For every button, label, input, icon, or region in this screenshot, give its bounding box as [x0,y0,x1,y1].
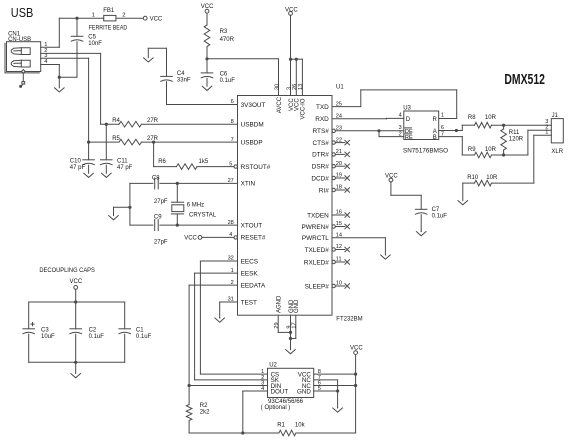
pin 27 XTIN label [228,178,256,188]
resistor R6 [154,142,234,169]
junction U2 pin6 rail [354,384,357,387]
svg-text:R11: R11 [509,130,520,136]
svg-text:1: 1 [545,130,548,136]
label R5 value 27R [147,136,159,142]
pin AVCC name [277,96,283,113]
svg-text:27: 27 [228,178,234,184]
pin D label U3 [399,113,411,123]
pin 1 EESK label [231,268,259,278]
svg-text:DMX512: DMX512 [504,71,545,88]
wire EESK net [195,273,268,380]
ground PWRCTL [381,238,391,260]
pin 2 SK label U2 [261,375,280,384]
svg-text:27pF: 27pF [154,199,168,205]
label R5 [112,136,120,142]
connector CN1 body [5,42,41,73]
vcc terminal VCC (decoupling) [70,279,83,289]
junction VCC rail b [295,58,298,61]
svg-text:3: 3 [399,125,402,131]
label SN75176BMSO [403,149,448,155]
label C8 [152,175,160,181]
label R3 [220,29,235,43]
ground R10 [458,183,468,205]
svg-text:4: 4 [399,113,402,119]
capacitor C2 0.1uF [70,302,82,362]
svg-text:CRYSTAL: CRYSTAL [189,212,217,218]
wire U2 pin7 to gnd [314,380,338,408]
ground U1 [286,350,296,354]
ground TEST [215,318,225,323]
label C9 value 27pF [154,239,168,245]
svg-text:C2: C2 [89,327,97,333]
svg-text:USB: USB [11,6,34,20]
wire U2 pin5 gnd stub [314,390,338,392]
junction XTIN crystal [176,182,179,185]
capacitor C1 0.1uF [119,302,131,362]
wire crystal left leg [129,183,131,225]
label R4 value 27R [147,118,159,124]
label C10 [70,158,86,170]
label C8 value 27pF [154,199,168,205]
svg-text:1: 1 [441,113,444,119]
vcc terminal VCC (RESET#) [184,236,202,242]
wire 3V3OUT [167,82,238,105]
label C5 value [88,35,102,47]
capacitor C4 [161,48,173,81]
junction GND [289,337,292,340]
resistor R11 120R [501,125,507,155]
svg-text:3V3OUT: 3V3OUT [241,102,266,109]
svg-text:29: 29 [274,322,280,328]
wire crystal gnd branch [114,206,130,208]
pin 4 RESET# label [229,232,266,242]
pin GND name a [289,299,295,313]
junction XTOUT crystal [176,224,179,227]
svg-text:CTS#: CTS# [312,140,329,147]
svg-text:GND: GND [297,388,311,395]
svg-text:2: 2 [399,131,402,137]
svg-text:DSR#: DSR# [312,164,329,171]
svg-text:0.1uF: 0.1uF [220,78,236,84]
junction U2 VCC pin8 [354,373,357,376]
svg-text:J1: J1 [552,113,559,119]
svg-text:C1: C1 [136,327,144,333]
pin 2 EEDATA label [231,280,266,290]
pin 24 RXD label [315,114,342,124]
svg-text:47 pF: 47 pF [70,165,86,171]
junction A wire [455,129,458,132]
junction VCC rail a [289,58,292,61]
svg-text:SLEEP#: SLEEP# [305,283,330,290]
svg-text:0.1uF: 0.1uF [136,334,152,340]
svg-text:R8: R8 [468,115,476,121]
pin 17 number [292,322,298,328]
pin 31 TEST label [228,297,257,307]
svg-text:R4: R4 [112,118,120,124]
junction U2 gnd [336,389,339,392]
pin 18 RI# no-connect [319,185,350,195]
resistor R2 2k2 [186,386,192,434]
junction AGND [289,331,292,334]
svg-text:( Optional ): ( Optional ) [261,405,291,411]
wire decoupling top rail [29,289,125,302]
svg-text:R10: R10 [467,175,479,181]
junction DOUT bottom [241,431,244,434]
label U1 [336,84,344,90]
svg-text:R9: R9 [468,147,476,153]
svg-text:VCC: VCC [295,98,301,111]
ground C6 [202,86,212,91]
svg-text:C7: C7 [432,207,440,213]
svg-text:13: 13 [298,84,304,90]
wire U2 pin6 stub [314,385,356,387]
pin 1 CS label U2 [261,369,279,378]
svg-text:RI#: RI# [319,187,329,194]
capacitor C6 [201,59,213,86]
svg-text:RSTOUT#: RSTOUT# [241,164,271,171]
pin 16 TXDEN no-connect [307,210,349,220]
label XLR [551,149,563,155]
pin 21 DTR# no-connect [312,149,349,159]
pin 19 DCD# no-connect [311,173,349,183]
pin AGND name [277,295,283,313]
pin 30 number [274,84,280,90]
junction R6 tap [152,141,155,144]
label R10 [467,175,498,181]
svg-text:30: 30 [274,84,280,90]
wire R9 to J1 pin2 [528,130,551,155]
ground C10 [84,173,94,178]
wire U2 pin8 stub [314,373,356,375]
svg-text:EECS: EECS [241,258,258,265]
capacitor C11 [101,124,113,173]
wire EECS net [200,261,267,374]
svg-text:RXD: RXD [315,116,329,123]
label 93C46/56/66 [268,399,304,405]
svg-text:DOUT: DOUT [271,388,289,395]
svg-text:RE: RE [405,135,413,141]
label R1 [277,422,305,428]
svg-text:2k2: 2k2 [200,409,210,415]
svg-text:10R: 10R [485,115,497,121]
vcc terminal VCC (U1) [285,7,298,15]
junction decap gnd [74,361,77,364]
svg-text:USBDP: USBDP [241,139,263,146]
pin 26 number [292,84,298,90]
svg-text:FB1: FB1 [103,8,115,14]
pin 8 USBDM label [231,119,264,129]
label R6 [158,159,166,165]
resistor R5 [89,139,238,145]
junction EEDATA DIN R2 [188,384,191,387]
pin 1 label J1 [545,130,548,136]
svg-text:RXLED#: RXLED# [304,259,329,266]
connector CN1 CN-USB label [8,31,31,43]
svg-text:SN75176BMSO: SN75176BMSO [403,149,448,155]
svg-text:10k: 10k [295,422,306,428]
svg-text:6: 6 [231,99,234,105]
label C9 [154,215,162,221]
vcc terminal VCC (U2) [350,345,363,354]
svg-text:120R: 120R [509,136,524,142]
connector CN1 shield stub [19,70,25,88]
wire U2 VCC rail [355,355,357,434]
pin 13 number [298,84,304,90]
svg-text:PWRCTL: PWRCTL [302,235,329,242]
wire EEDATA net [189,285,267,385]
svg-text:R5: R5 [112,136,120,142]
pin 3 DIN label U2 [261,381,281,390]
wire PWRCTL to gnd [332,237,385,239]
pin 9 number [286,325,292,328]
resistor R8 [462,122,551,130]
svg-text:C8: C8 [152,175,160,181]
junction RTS DE RE [377,129,380,132]
node USB title [11,6,34,20]
svg-text:27pF: 27pF [154,239,168,245]
label crystal 6 MHz [187,202,204,208]
label R4 [112,118,120,124]
wire AVCC feed [207,59,279,96]
junction decap vcc [74,300,77,303]
transistor U3 SN75176 body [404,111,439,140]
svg-text:33nF: 33nF [177,78,191,84]
resistor R1 10k [189,430,356,436]
svg-text:27R: 27R [147,118,159,124]
pin 5 bubble RSTOUT# [234,165,237,168]
svg-text:R6: R6 [158,159,166,165]
pin 23 RTS# label [313,126,342,136]
ground C11 [102,173,112,178]
ground crystal [109,207,119,220]
svg-text:1: 1 [92,12,95,18]
pin 2 label FB1 [122,12,125,18]
label C1 [136,327,152,339]
svg-text:RTS#: RTS# [313,128,330,135]
wire USBDM from pin2 [41,53,101,124]
svg-text:C4: C4 [177,71,185,77]
pin 10 SLEEP# no-connect [305,281,350,291]
ground C7 [416,231,426,235]
pin 14 PWRCTL label [302,232,342,242]
svg-text:470R: 470R [220,37,235,43]
junction R11 bottom [502,153,505,156]
pin 20 DSR# no-connect [312,161,350,171]
pin RE label U3 [399,131,413,141]
pin R label U3 [432,113,444,123]
op-amp U1 FT232BM body [238,96,333,316]
label R11 [509,130,524,143]
label R2 [200,403,210,416]
label C3 [41,327,55,339]
wire C4 to gnd [148,47,166,49]
pin 29 number [274,322,280,328]
svg-text:PWREN#: PWREN# [301,224,329,231]
svg-text:17: 17 [292,322,298,328]
wire FB1 to VCC [116,17,143,19]
svg-text:FERRITE BEAD: FERRITE BEAD [89,26,128,32]
svg-text:28: 28 [228,220,234,226]
svg-text:TXDEN: TXDEN [307,212,329,219]
svg-text:C10: C10 [70,158,82,164]
pin B label U3 [433,131,444,141]
svg-text:7: 7 [231,137,234,143]
label FT232BM [336,316,362,322]
svg-text:0.1uF: 0.1uF [89,334,105,340]
pin 5 GND label U2 [297,386,321,395]
pin 2 label CN1 [44,48,47,54]
wire R10 to J1 pin1 [534,135,552,183]
svg-text:R2: R2 [200,403,208,409]
label CRYSTAL [189,212,217,218]
wire RXD to U3 D [332,117,404,119]
svg-text:DTR#: DTR# [312,152,329,159]
svg-text:EEDATA: EEDATA [241,282,266,289]
svg-text:10R: 10R [485,147,497,153]
label Optional [261,405,291,411]
resistor R10 [463,180,534,186]
ferrite bead FB1 [104,15,116,21]
pin 32 EECS label [228,256,258,266]
ground USB [55,77,65,92]
pin 7 USBDP label [231,137,263,147]
svg-text:TEST: TEST [241,299,257,306]
svg-text:XTIN: XTIN [241,181,256,188]
pin VCC name a [289,98,295,111]
label FB1 [103,8,115,14]
svg-text:B: B [433,135,437,141]
node DMX512 title [504,71,545,88]
svg-text:AGND: AGND [277,295,283,313]
pin 6 NC label U2 [302,381,321,390]
ground decoupling [71,362,81,378]
crystal X1 6MHz [172,183,184,225]
svg-text:C3: C3 [41,327,49,333]
svg-text:GND: GND [294,299,300,313]
wire RTS# to U3 DE RE [335,131,403,137]
svg-text:FT232BM: FT232BM [336,316,362,322]
wire USBDP from pin3 [41,58,89,142]
wire VBUS pin1 to FB1 [41,18,104,47]
svg-text:VCC-IO: VCC-IO [301,98,307,119]
junction C10 top [87,141,90,144]
svg-text:DCD#: DCD# [311,175,329,182]
wire AGND pin29 [278,315,290,332]
pin VCC-IO name [301,98,307,119]
svg-text:8: 8 [231,119,234,125]
label R8 [468,115,497,121]
pin 12 TXLED# no-connect [305,244,350,254]
junction C11 top [105,123,108,126]
pin 1 label CN1 [44,42,47,48]
wire GND pin9 [290,315,292,349]
svg-text:R3: R3 [220,29,228,35]
pin VCC name b [295,98,301,111]
wire GND pin17 [291,315,296,338]
svg-text:10nF: 10nF [88,41,102,47]
capacitor C8 [130,178,238,189]
pin 25 TXD label [316,101,342,111]
capacitor C9 [130,220,238,231]
pin 1 label FB1 [92,12,95,18]
resistor R4 [101,121,238,127]
svg-text:47 pF: 47 pF [117,165,133,171]
wire C5 bottom to gnd node [59,76,77,78]
pin 5 RSTOUT# label [229,161,270,171]
svg-text:U1: U1 [336,84,344,90]
resistor R3 [204,13,210,59]
svg-text:USBDM: USBDM [241,122,264,129]
label R6 value 1k5 [199,159,209,165]
svg-text:10R: 10R [486,175,498,181]
junction C5 top [75,17,78,20]
label C2 [89,327,105,339]
svg-text:C9: C9 [154,215,162,221]
svg-text:5: 5 [229,161,232,167]
label FERRITE BEAD [89,26,128,32]
svg-text:EESK: EESK [241,270,259,277]
pin 11 RXLED# no-connect [304,257,350,267]
label U3 [403,105,411,111]
capacitor C5 [71,18,83,77]
svg-text:6 MHz: 6 MHz [187,202,204,208]
label J1 [552,113,559,119]
node DECOUPLING CAPS [39,268,95,274]
svg-text:AVCC: AVCC [277,96,283,113]
svg-text:RESET#: RESET# [241,235,266,242]
pin 3 label J1 [545,119,548,125]
connector J1 XLR body [551,119,563,143]
svg-text:VCC: VCC [184,236,197,242]
svg-text:XLR: XLR [551,149,563,155]
wire TXD to U3 R [332,90,457,119]
capacitor C3 10uF [23,302,35,362]
pin A label U3 [433,125,444,135]
svg-text:1k5: 1k5 [199,159,209,165]
pin 2 label J1 [545,124,548,130]
junction USB gnd [58,76,61,79]
svg-text:26: 26 [292,84,298,90]
op-amp U2 93C46 body [268,368,314,397]
pin 28 XTOUT label [228,220,263,230]
svg-text:10uF: 10uF [41,334,55,340]
svg-text:A: A [433,129,437,135]
svg-text:R: R [432,117,437,123]
wire DOUT drop [243,391,268,433]
svg-text:U3: U3 [403,105,411,111]
svg-text:C6: C6 [220,71,228,77]
svg-text:R1: R1 [277,422,285,428]
wire VCC rail to U1 [291,15,303,95]
label C4 [177,71,191,83]
svg-text:2: 2 [122,12,125,18]
pin 22 CTS# no-connect [312,137,349,147]
vcc terminal VCC (VBUS) [143,16,163,22]
wire TEST to gnd [220,302,238,318]
junction crystal gnd tap [128,206,131,209]
capacitor C7 [391,182,427,232]
svg-text:D: D [406,117,411,123]
pin GND name b [294,299,300,313]
wire U3 A out [439,130,463,132]
vcc terminal VCC (R3) [201,4,214,13]
svg-text:0.1uF: 0.1uF [432,214,448,220]
svg-text:VCC: VCC [150,16,163,22]
svg-text:XTOUT: XTOUT [241,222,263,229]
label U2 [269,363,277,369]
pin 3 number [286,87,292,90]
svg-text:VCC: VCC [70,279,83,285]
